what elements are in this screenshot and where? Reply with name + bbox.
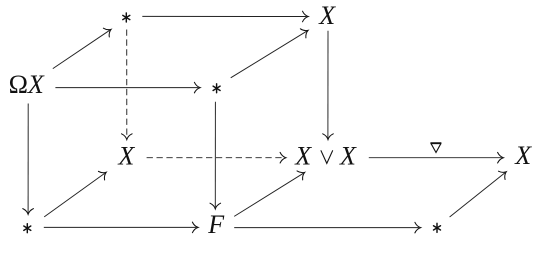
svg-text:X: X: [294, 142, 312, 171]
svg-text:ΩX: ΩX: [9, 70, 45, 99]
svg-text:X: X: [514, 141, 532, 170]
svg-text:F: F: [207, 210, 225, 239]
svg-text:X: X: [318, 1, 336, 30]
svg-text:X: X: [339, 142, 357, 171]
svg-text:X: X: [117, 141, 135, 170]
